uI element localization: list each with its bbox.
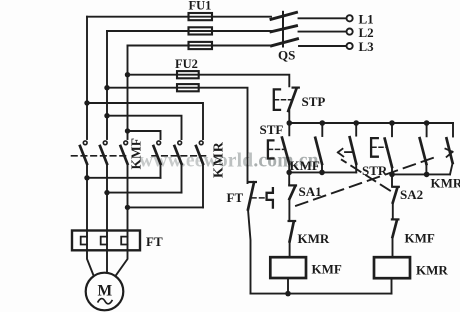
- terminal L3: [347, 43, 353, 49]
- node phase C tap crossfeed: [125, 128, 130, 133]
- wire node B bus: [289, 171, 356, 173]
- button STF stub: [288, 123, 290, 135]
- wire SA2 to KMF NC: [392, 203, 394, 219]
- button STR actuator bracket: [371, 138, 378, 157]
- wire KMR coil to bottom bus: [391, 278, 393, 293]
- coil KMR: [374, 257, 410, 278]
- svg-text:QS: QS: [278, 48, 295, 63]
- svg-text:KMR: KMR: [298, 231, 330, 246]
- wire FT NC return: [248, 210, 251, 294]
- svg-text:M: M: [97, 283, 112, 300]
- contactor KMF main pole3: [121, 141, 128, 207]
- limit switch SA2 tick: [392, 186, 399, 188]
- interlock KMR NC blade: [290, 222, 294, 242]
- thermal relay FT box: [72, 231, 140, 251]
- svg-text:KMR: KMR: [212, 141, 227, 178]
- interlock KMF NC tick: [392, 218, 399, 220]
- contact KMF aux stub: [321, 123, 323, 136]
- button STF blade: [282, 138, 289, 164]
- relay contact FT NC blade: [248, 182, 254, 209]
- node crossover W junction: [125, 205, 130, 210]
- svg-text:SA1: SA1: [299, 184, 322, 199]
- node bus dot SA2no: [353, 120, 359, 126]
- wire crossfeed phase C to KMR pole1: [128, 131, 161, 139]
- fuse FU1 pole2: [189, 27, 213, 34]
- contact SA2no blade: [350, 137, 357, 163]
- button STR blade: [385, 139, 392, 167]
- linkage arrow SA1no: [445, 149, 452, 157]
- wire L3 feeder to FU1: [128, 45, 272, 47]
- wire KMF aux to node B: [321, 164, 323, 173]
- switch QS linkage bar: [282, 12, 284, 47]
- button STF actuator dashes: [269, 148, 285, 150]
- contactor KMF main pole2: [100, 141, 107, 193]
- button STF actuator bracket: [268, 140, 274, 158]
- wire bottom bus: [251, 293, 392, 295]
- interlock KMR NC tick: [289, 220, 296, 222]
- limit switch SA1 tick: [289, 184, 296, 186]
- relay contact FT dashes: [252, 197, 266, 199]
- contact SA1no blade: [447, 138, 453, 163]
- button STR stub: [391, 123, 393, 136]
- wire FU2a feed: [128, 75, 290, 87]
- node B dot2: [319, 170, 325, 176]
- svg-text:KMF: KMF: [312, 262, 342, 277]
- wire to KMF coil: [289, 241, 291, 257]
- wire FT to motor U: [87, 250, 94, 276]
- wire motor feed W: [127, 207, 129, 230]
- interlock KMF NC blade: [393, 221, 397, 237]
- wire FT to motor W: [116, 250, 128, 276]
- terminal L2: [347, 29, 353, 35]
- contact KMR aux blade: [420, 138, 427, 164]
- wire control top bus: [289, 122, 453, 124]
- wire FU2b feed: [107, 88, 248, 183]
- wire to KMR coil: [392, 237, 394, 257]
- switch QS blade1: [271, 12, 297, 19]
- svg-text:L3: L3: [359, 39, 375, 54]
- linkage dashed SA1 to SA1no: [296, 156, 437, 205]
- node A dot: [287, 120, 293, 126]
- svg-text:FT: FT: [146, 234, 163, 249]
- svg-text:KMR: KMR: [431, 175, 460, 190]
- svg-text:KMR: KMR: [416, 263, 448, 278]
- contact SA2no stub: [355, 123, 357, 136]
- node phase B tap to FU2b: [104, 85, 109, 90]
- motor tilde: [98, 299, 112, 304]
- node bus dot STR: [389, 120, 395, 126]
- wire QS to L2 terminal: [299, 31, 347, 33]
- node phase A tap crossfeed: [84, 100, 89, 105]
- wire STP to node A: [288, 111, 290, 123]
- svg-text:KMF: KMF: [290, 158, 320, 173]
- fuse FU1 pole3: [189, 42, 213, 49]
- switch QS blade3: [272, 39, 298, 46]
- node C dot: [389, 172, 395, 178]
- svg-text:FU1: FU1: [189, 0, 212, 13]
- svg-text:KMF: KMF: [129, 138, 144, 170]
- contactor KMR linkage dashes: [152, 155, 206, 157]
- svg-text:FU2: FU2: [175, 57, 198, 71]
- button STP actuator dashes: [275, 99, 292, 101]
- button STP NC blade: [288, 88, 296, 111]
- wire KMR aux to node C: [425, 164, 427, 174]
- svg-text:KMF: KMF: [405, 231, 435, 246]
- node bus dot KMR aux: [424, 120, 430, 126]
- contactor KMR main pole3: [196, 141, 203, 207]
- node phase C tap to FU2a: [125, 72, 130, 77]
- linkage dashed SA2 to SA2no: [342, 160, 390, 191]
- wire QS to L1 terminal: [299, 17, 347, 19]
- relay FT element symbol: [267, 188, 273, 207]
- wire phase B vertical: [106, 31, 108, 139]
- contact KMR aux stub: [426, 123, 428, 136]
- node crossover U junction: [84, 175, 89, 180]
- wire crossover W: [128, 206, 204, 208]
- linkage arrow SA2no: [338, 149, 353, 157]
- wire phase C vertical: [127, 46, 129, 140]
- limit switch SA1 blade: [289, 186, 295, 199]
- wire crossover U: [87, 177, 161, 179]
- thermal relay FT element1: [81, 231, 87, 251]
- wire phase A vertical: [86, 17, 88, 139]
- node C dot2: [424, 172, 430, 178]
- svg-text:STF: STF: [260, 122, 284, 137]
- wire motor feed U: [86, 178, 88, 231]
- button STR actuator dashes: [372, 146, 387, 148]
- contactor KMF main pole1: [80, 141, 87, 178]
- fuse FU2 pole2: [177, 84, 199, 91]
- svg-text:L2: L2: [359, 25, 374, 40]
- button STP NC tick: [293, 86, 299, 88]
- node bottom bus dot: [285, 291, 291, 297]
- wire motor feed V: [106, 193, 108, 231]
- wire crossfeed phase B to KMR pole2: [107, 116, 182, 139]
- wire crossfeed phase A to KMR pole3: [87, 103, 203, 139]
- wire SA1 to KMR NC: [288, 199, 290, 221]
- wire FT to motor V: [106, 250, 108, 272]
- motor M circle: [86, 273, 124, 311]
- wire SA2no to node B: [355, 164, 357, 173]
- thermal relay FT element2: [101, 231, 107, 251]
- wire node C bus: [392, 173, 450, 175]
- node bus dot KMF aux: [320, 120, 326, 126]
- wire L2 feeder to FU1: [107, 30, 271, 32]
- fuse FU1 pole1: [189, 13, 213, 20]
- wire STF to node B: [288, 164, 290, 173]
- button STP actuator bracket: [274, 89, 280, 110]
- fuse FU2 pole1: [177, 71, 199, 78]
- limit switch SA2 stub: [391, 174, 393, 186]
- limit switch SA1 stub: [288, 172, 290, 184]
- node B dot: [286, 170, 292, 176]
- node phase B tap crossfeed: [104, 113, 109, 118]
- svg-text:STP: STP: [302, 94, 326, 109]
- svg-text:SA2: SA2: [400, 187, 423, 202]
- coil KMF: [270, 257, 306, 278]
- contactor KMR main pole2: [175, 141, 182, 193]
- contactor KMF linkage dashes: [72, 155, 130, 157]
- wire crossover V: [107, 192, 182, 194]
- contact SA1no corner: [452, 123, 454, 137]
- thermal relay FT element3: [121, 231, 127, 251]
- contact KMF aux blade: [315, 138, 322, 164]
- terminal L1: [347, 15, 353, 21]
- wire KMF coil to bottom bus: [287, 278, 289, 294]
- svg-text:FT: FT: [227, 190, 244, 205]
- relay contact FT NC tick: [249, 181, 256, 183]
- limit switch SA2 blade: [393, 188, 398, 203]
- wire STR to node C: [391, 167, 393, 174]
- wire SA1no to node C: [450, 163, 453, 174]
- contactor KMR main pole1: [154, 141, 161, 178]
- switch QS blade2: [271, 26, 297, 32]
- wire QS to L3 terminal: [299, 45, 346, 47]
- wire L1 feeder to FU1: [87, 16, 271, 18]
- node crossover V junction: [104, 190, 109, 195]
